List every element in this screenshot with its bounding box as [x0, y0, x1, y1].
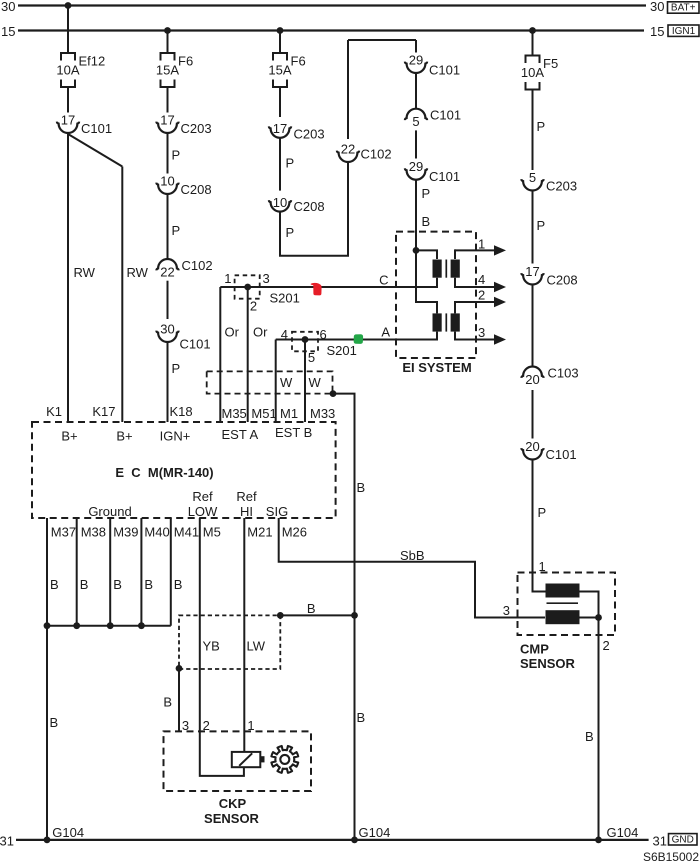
EI system box	[396, 232, 476, 358]
svg-text:B: B	[50, 715, 59, 730]
svg-text:W: W	[280, 375, 293, 390]
svg-text:10A: 10A	[521, 65, 544, 80]
red highlight mark	[311, 283, 322, 296]
svg-text:C203: C203	[294, 127, 325, 142]
wire coil2 sec to pin 2	[455, 302, 456, 313]
svg-text:22: 22	[160, 264, 174, 279]
wire M39 (B)	[109, 518, 111, 626]
wire bus15 to fuse F6 col C	[279, 31, 281, 54]
svg-text:LOW: LOW	[188, 504, 218, 519]
wire coil1 sec to pin 4	[455, 278, 456, 287]
svg-text:2: 2	[603, 638, 610, 653]
svg-text:C: C	[379, 273, 388, 288]
svg-text:3: 3	[263, 271, 270, 286]
svg-text:2: 2	[478, 288, 485, 303]
svg-text:B: B	[585, 729, 594, 744]
svg-text:B: B	[357, 480, 366, 495]
svg-text:5: 5	[308, 350, 315, 365]
svg-text:RW: RW	[74, 265, 96, 280]
wire C102 up to top link	[347, 40, 349, 139]
svg-text:22: 22	[341, 142, 355, 157]
svg-text:C102: C102	[361, 147, 392, 162]
junction on bus 15 col B	[164, 27, 171, 34]
connector 20 C103 right	[521, 366, 578, 387]
svg-text:C208: C208	[294, 199, 325, 214]
svg-text:P: P	[537, 119, 546, 134]
junction gnd M37	[44, 622, 51, 629]
svg-text:P: P	[422, 186, 431, 201]
fuse Ef12 10A	[56, 53, 105, 87]
splice S201 lower junction	[302, 336, 309, 343]
svg-text:P: P	[537, 218, 546, 233]
svg-text:G104: G104	[52, 825, 84, 840]
svg-text:Ef12: Ef12	[79, 54, 106, 69]
svg-text:15A: 15A	[268, 63, 291, 78]
junction shield top right	[277, 612, 284, 619]
svg-text:6: 6	[320, 327, 327, 342]
connector 29 C101 lower	[405, 159, 460, 184]
wire K1 (RW)	[67, 133, 69, 422]
svg-text:B: B	[144, 577, 153, 592]
CKP reluctor gear	[271, 746, 298, 773]
svg-text:31: 31	[0, 834, 14, 849]
svg-text:M5: M5	[203, 525, 221, 540]
net label IGN1	[668, 25, 699, 37]
svg-text:W: W	[309, 375, 322, 390]
svg-text:EST A: EST A	[222, 427, 259, 442]
svg-text:C101: C101	[546, 447, 577, 462]
wire B down to coil2	[416, 250, 437, 313]
wire B to coil1 primary top	[416, 250, 437, 259]
wire top link down col D	[415, 40, 417, 53]
svg-text:4: 4	[281, 327, 288, 342]
svg-text:K1: K1	[46, 404, 62, 419]
svg-text:17: 17	[273, 121, 287, 136]
svg-text:M38: M38	[81, 525, 106, 540]
svg-text:29: 29	[409, 159, 423, 174]
net label BAT+	[668, 2, 700, 14]
wire M26 (SIG/SbB)	[279, 518, 545, 618]
svg-text:C101: C101	[180, 337, 211, 352]
svg-text:G104: G104	[359, 825, 391, 840]
wire top link to col D	[348, 39, 416, 41]
svg-text:10: 10	[160, 174, 174, 189]
connector 29 C101 upper	[405, 53, 460, 78]
svg-text:E C M(MR-140): E C M(MR-140)	[115, 465, 213, 480]
wire M41 (B)	[170, 518, 172, 626]
svg-text:17: 17	[61, 113, 75, 128]
connector 17 C203 col C	[269, 121, 325, 142]
wire CMP bottom element	[580, 617, 599, 619]
wire to lower C101 col D	[415, 130, 417, 158]
splice S201 lower marker	[292, 332, 318, 352]
svg-text:G104: G104	[607, 825, 639, 840]
junction EST shield to B	[330, 390, 337, 397]
svg-text:10: 10	[273, 195, 287, 210]
svg-text:15: 15	[1, 24, 15, 39]
junction on bus 15 F5	[529, 27, 536, 34]
wire C101 to K18	[167, 342, 169, 422]
svg-text:B: B	[50, 577, 59, 592]
connector 22 C102 mid	[337, 142, 392, 163]
svg-text:30: 30	[650, 0, 664, 14]
svg-text:B: B	[113, 577, 122, 592]
green highlight mark	[354, 334, 363, 344]
svg-text:29: 29	[409, 53, 423, 68]
svg-text:P: P	[172, 223, 181, 238]
svg-text:5: 5	[412, 114, 419, 129]
svg-text:1: 1	[224, 271, 231, 286]
CMP core line	[547, 602, 579, 604]
svg-text:3: 3	[478, 325, 485, 340]
wire C203 to C208 col B	[167, 133, 169, 174]
svg-text:30: 30	[160, 322, 174, 337]
splice S201 upper marker	[235, 275, 260, 298]
svg-text:15A: 15A	[156, 63, 179, 78]
fuse F5 10A	[521, 56, 558, 90]
svg-text:Or: Or	[253, 325, 268, 340]
wire branch to K17	[68, 134, 122, 167]
svg-text:C101: C101	[81, 121, 112, 136]
fuse F6 15A col C	[268, 53, 305, 87]
wire C101 to CMP pin 1	[533, 460, 546, 592]
svg-text:M39: M39	[113, 525, 138, 540]
wire fuse Ef12 to C101	[67, 87, 69, 113]
wire fuse F5 down	[532, 90, 534, 171]
wire M1 (W)	[275, 340, 277, 423]
svg-text:B: B	[80, 577, 89, 592]
wire M51 (Or)	[247, 287, 249, 422]
CMP element top	[546, 584, 580, 598]
svg-text:P: P	[538, 505, 547, 520]
wire C102 to C101 col B	[167, 281, 169, 319]
svg-text:B: B	[422, 214, 431, 229]
connector 10 C208 col B	[156, 174, 211, 198]
wire C103 to C101 right	[532, 390, 534, 439]
svg-text:A: A	[381, 325, 390, 340]
svg-text:C102: C102	[182, 258, 213, 273]
svg-text:F5: F5	[543, 56, 558, 71]
wire M35 (Or)	[219, 287, 221, 422]
svg-text:HI: HI	[240, 504, 253, 519]
svg-text:Ref: Ref	[192, 489, 213, 504]
ECM box	[32, 422, 336, 518]
wire C101 into EI system	[415, 180, 417, 251]
svg-text:C203: C203	[181, 121, 212, 136]
wire ground gather	[47, 625, 171, 627]
svg-text:GND: GND	[672, 835, 694, 846]
svg-text:30: 30	[1, 0, 15, 14]
junction shield bottom left	[176, 665, 183, 672]
wire shield drain B	[333, 394, 355, 840]
svg-text:M35: M35	[222, 406, 247, 421]
wire CMP internal right	[580, 592, 599, 840]
ignition coil 1	[433, 260, 460, 278]
wire C from splice S201 to coil1	[220, 278, 437, 287]
svg-text:5: 5	[529, 170, 536, 185]
svg-text:Ground: Ground	[88, 504, 131, 519]
svg-text:C203: C203	[546, 179, 577, 194]
svg-text:SENSOR: SENSOR	[204, 811, 260, 826]
svg-text:20: 20	[525, 439, 539, 454]
wire C208 to C102 col B	[167, 194, 169, 259]
svg-text:2: 2	[250, 299, 257, 314]
svg-text:M37: M37	[51, 525, 76, 540]
connector 17 C208 right	[521, 264, 577, 288]
wire shield to drain B	[280, 614, 354, 616]
svg-text:C101: C101	[429, 63, 460, 78]
wire bus 15 (IGN1)	[18, 29, 644, 31]
fuse F6 15A col B	[156, 53, 193, 87]
svg-text:CKP: CKP	[219, 796, 247, 811]
svg-text:M21: M21	[247, 525, 272, 540]
connector 5 C203 right	[521, 170, 577, 194]
junction bus31 G104 right	[595, 837, 602, 844]
svg-text:B: B	[307, 601, 316, 616]
svg-text:M41: M41	[174, 525, 199, 540]
wire M33 (W)	[304, 340, 306, 423]
CKP pickup coil	[232, 752, 265, 767]
svg-text:B+: B+	[61, 429, 77, 444]
wire bus30 to fuse Ef12	[67, 6, 69, 54]
wire bus15 to fuse F5	[532, 31, 534, 56]
svg-text:C208: C208	[181, 182, 212, 197]
junction gnd M40	[138, 622, 145, 629]
svg-text:K17: K17	[92, 404, 115, 419]
CKP sensor box	[164, 731, 312, 791]
wire M40 (B)	[140, 518, 142, 626]
svg-text:S6B15002: S6B15002	[643, 850, 699, 864]
connector 17 C101	[57, 113, 112, 137]
svg-text:B: B	[357, 710, 366, 725]
junction node B in EI	[413, 247, 420, 254]
wire C208 down-right-up	[280, 162, 348, 256]
svg-text:IGN1: IGN1	[672, 26, 696, 37]
EST shield box	[207, 371, 333, 393]
svg-text:BAT+: BAT+	[671, 3, 696, 14]
svg-text:B: B	[163, 695, 172, 710]
junction bus31 G104 mid	[351, 837, 358, 844]
svg-text:M33: M33	[310, 406, 335, 421]
wire M5 (YB) to CKP	[200, 518, 244, 776]
svg-text:F6: F6	[178, 54, 193, 69]
wire bus15 to fuse F6 col B	[167, 31, 169, 54]
wire K17 (RW)	[121, 167, 123, 423]
svg-text:Ref: Ref	[236, 489, 257, 504]
net label GND	[669, 834, 698, 846]
wire M21 (LW) to CKP	[243, 518, 245, 752]
wire coil2 sec to pin 3	[455, 332, 456, 340]
connector 10 C208 col C	[269, 195, 325, 214]
splice S201 upper junction	[244, 284, 251, 291]
CMP element bottom	[546, 610, 580, 624]
svg-text:31: 31	[653, 834, 667, 849]
svg-text:P: P	[172, 361, 181, 376]
wire fuse to C203 col C	[279, 87, 281, 117]
svg-text:B: B	[174, 577, 183, 592]
svg-text:LW: LW	[247, 639, 266, 654]
svg-text:C103: C103	[548, 366, 579, 381]
svg-text:17: 17	[525, 264, 539, 279]
svg-text:F6: F6	[291, 54, 306, 69]
wire shield to CKP pin 3	[178, 668, 180, 731]
svg-text:YB: YB	[203, 639, 220, 654]
svg-text:20: 20	[525, 372, 539, 387]
connector 22 C102 col B	[156, 258, 212, 279]
svg-text:B+: B+	[116, 429, 132, 444]
wire C203 to C208 right	[532, 191, 534, 264]
svg-text:C208: C208	[547, 273, 578, 288]
svg-text:3: 3	[503, 603, 510, 618]
svg-text:Or: Or	[225, 325, 240, 340]
svg-text:10A: 10A	[56, 63, 79, 78]
wire A from splice S201 to coil2	[276, 332, 437, 340]
junction on bus 15 col C	[277, 27, 284, 34]
svg-text:M40: M40	[144, 525, 169, 540]
junction gnd M38	[73, 622, 80, 629]
svg-text:C101: C101	[429, 169, 460, 184]
svg-text:IGN+: IGN+	[160, 429, 191, 444]
svg-text:S201: S201	[270, 291, 300, 306]
svg-text:K18: K18	[170, 404, 193, 419]
junction bus31 G104 left	[44, 837, 51, 844]
svg-text:SIG: SIG	[266, 504, 288, 519]
svg-text:4: 4	[478, 272, 485, 287]
svg-text:CMP: CMP	[520, 642, 549, 657]
wire bus 30 (BAT+)	[18, 4, 646, 6]
svg-text:17: 17	[160, 113, 174, 128]
wire C203 to C208 col C	[279, 138, 281, 191]
svg-text:15: 15	[650, 24, 664, 39]
svg-text:RW: RW	[127, 265, 149, 280]
junction CMP pin 2 node	[595, 614, 602, 621]
svg-text:P: P	[286, 156, 295, 171]
wire coil1 sec to pin 1	[455, 250, 456, 259]
svg-text:M1: M1	[280, 406, 298, 421]
wire C208 to C103 right	[532, 285, 534, 367]
svg-text:1: 1	[478, 237, 485, 252]
connector 20 C101 right	[521, 439, 576, 462]
wire M37 (B) to G104	[46, 518, 48, 840]
svg-text:P: P	[172, 148, 181, 163]
svg-text:C101: C101	[430, 108, 461, 123]
svg-text:M51: M51	[251, 406, 276, 421]
CMP sensor box	[518, 573, 616, 636]
svg-text:S201: S201	[327, 343, 357, 358]
connector 30 C101 col B	[156, 322, 210, 352]
svg-text:EST B: EST B	[275, 425, 312, 440]
wire M38 (B)	[76, 518, 78, 626]
junction on bus 30	[65, 2, 72, 9]
connector 5 C101 mid	[405, 108, 461, 129]
svg-text:P: P	[286, 225, 295, 240]
svg-text:SENSOR: SENSOR	[520, 656, 576, 671]
ignition coil 2	[433, 313, 460, 331]
svg-text:SbB: SbB	[400, 548, 425, 563]
connector 17 C203 col B	[156, 113, 211, 137]
wire fuse to C203 col B	[167, 87, 169, 113]
shield box CKP	[179, 615, 280, 669]
svg-text:EI SYSTEM: EI SYSTEM	[402, 360, 471, 375]
junction gnd M39	[107, 622, 114, 629]
wire bus 31 (GND)	[16, 839, 649, 841]
wire C101 pair col D	[415, 73, 417, 109]
junction drain B	[351, 612, 358, 619]
svg-text:M26: M26	[282, 525, 307, 540]
